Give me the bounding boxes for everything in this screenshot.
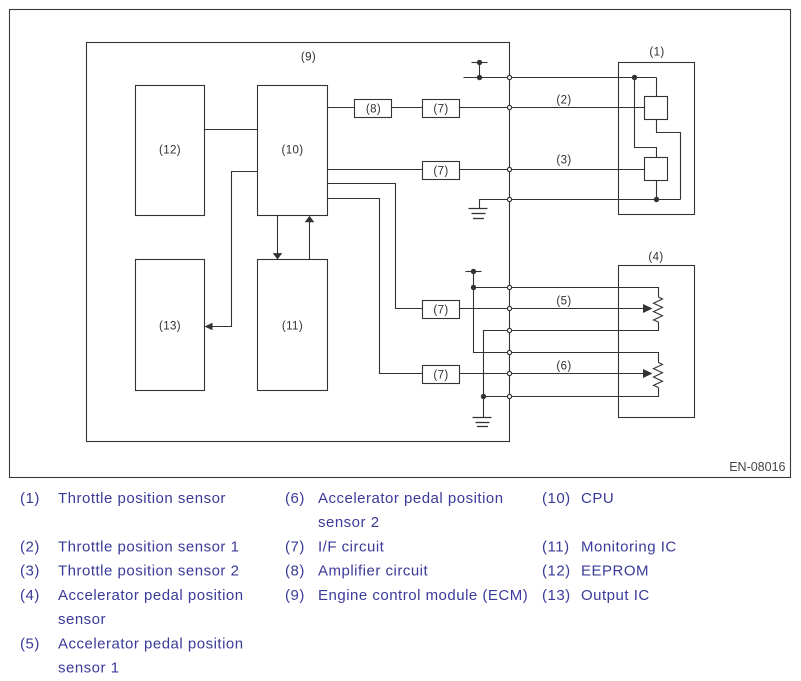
junction dot power-throttle	[477, 75, 482, 80]
svg-text:sensor: sensor	[58, 611, 106, 628]
accelerator pedal position sensor box (4)	[619, 266, 695, 418]
wire (10) to (8)	[328, 107, 355, 109]
power supply symbol (pedal)	[466, 269, 482, 288]
element 1 ground path	[657, 120, 681, 200]
svg-text:(13): (13)	[159, 321, 181, 333]
power supply symbol (throttle)	[472, 60, 488, 78]
svg-text:(12): (12)	[159, 145, 181, 157]
svg-text:Throttle position sensor 1: Throttle position sensor 1	[58, 539, 239, 556]
amplifier circuit box (8)	[355, 100, 392, 118]
arrow (10) to (11)	[273, 216, 283, 260]
svg-text:(12): (12)	[542, 563, 571, 580]
svg-text:sensor 1: sensor 1	[58, 660, 120, 677]
power drop to supply 2	[474, 288, 510, 353]
svg-text:CPU: CPU	[581, 490, 614, 507]
svg-text:(11): (11)	[542, 539, 570, 556]
potentiometer 2 ground wire	[484, 388, 659, 397]
wire supply to element 1	[656, 78, 658, 97]
wire (7)#4 to pin 6	[460, 373, 510, 375]
wire pin 5 to wiper 1 (arrow)	[510, 304, 653, 313]
wire supply to element 2	[635, 78, 657, 158]
svg-text:(10): (10)	[281, 145, 303, 157]
wire (7)#2 to pin 3	[460, 169, 510, 171]
svg-text:(7): (7)	[285, 539, 305, 556]
svg-text:Output IC: Output IC	[581, 587, 650, 604]
connector pins (open circles)	[507, 75, 511, 398]
wire pin to sensor ground	[510, 199, 681, 201]
svg-text:(10): (10)	[542, 490, 571, 507]
potentiometer 2 zigzag	[654, 363, 663, 388]
svg-text:(9): (9)	[285, 587, 305, 604]
Output IC box (13)	[136, 260, 205, 391]
svg-text:(8): (8)	[285, 563, 305, 580]
svg-text:(13): (13)	[542, 587, 571, 604]
wire (12) to (10)	[205, 129, 258, 131]
svg-text:(3): (3)	[20, 563, 40, 580]
sensor element 2	[645, 158, 668, 181]
svg-text:(5): (5)	[556, 296, 571, 308]
svg-text:Accelerator pedal position: Accelerator pedal position	[318, 490, 504, 507]
svg-text:Accelerator pedal position: Accelerator pedal position	[58, 636, 244, 653]
svg-text:(6): (6)	[285, 490, 305, 507]
svg-text:Monitoring IC: Monitoring IC	[581, 539, 677, 556]
svg-text:Throttle position sensor 2: Throttle position sensor 2	[58, 563, 239, 580]
svg-text:(5): (5)	[20, 636, 40, 653]
I/F circuit box (7) #1	[423, 100, 460, 118]
wire (10) to (7)#3	[328, 184, 423, 309]
wire (10) to (7)#4	[328, 199, 423, 374]
arrow (11) to (10)	[305, 216, 315, 260]
wire (7)#1 to pin 2	[460, 107, 510, 109]
CPU box (10)	[258, 86, 328, 216]
svg-text:Engine control module (ECM): Engine control module (ECM)	[318, 587, 528, 604]
svg-text:(7): (7)	[433, 104, 448, 116]
wire (10) to (13) with arrow	[205, 172, 258, 331]
wire (8) to (7) #1	[392, 107, 423, 109]
wire pin to sensor (1) supply	[510, 77, 657, 79]
ground symbol (pedal)	[473, 418, 492, 427]
svg-text:(7): (7)	[433, 305, 448, 317]
wire pin to potentiometer 1 top	[510, 288, 659, 298]
svg-text:(3): (3)	[556, 155, 571, 167]
svg-text:(7): (7)	[433, 166, 448, 178]
svg-text:(1): (1)	[20, 490, 40, 507]
svg-text:Throttle position sensor: Throttle position sensor	[58, 490, 226, 507]
throttle sensor ground stub	[480, 200, 510, 209]
potentiometer 1 zigzag	[654, 297, 663, 322]
wire pin 2 to sensor element 1	[510, 107, 645, 109]
wire (7)#3 to pin 5	[460, 308, 510, 310]
svg-text:(1): (1)	[649, 47, 664, 59]
svg-text:I/F circuit: I/F circuit	[318, 539, 385, 556]
wire pin 3 to sensor element 2	[510, 169, 645, 171]
EEPROM box (12)	[136, 86, 205, 216]
svg-text:(6): (6)	[556, 361, 571, 373]
svg-text:(11): (11)	[282, 321, 303, 333]
svg-text:(9): (9)	[301, 52, 316, 64]
ECM module box (9)	[87, 43, 510, 442]
legend column 2	[285, 490, 528, 604]
legend column 3	[542, 490, 677, 604]
svg-text:EEPROM: EEPROM	[581, 563, 649, 580]
svg-text:Accelerator pedal position: Accelerator pedal position	[58, 587, 244, 604]
legend column 1	[20, 490, 244, 677]
sensor element 1	[645, 97, 668, 120]
I/F circuit box (7) #4	[423, 366, 460, 384]
svg-text:EN-08016: EN-08016	[729, 460, 785, 474]
svg-text:(4): (4)	[20, 587, 40, 604]
svg-text:(2): (2)	[556, 95, 571, 107]
wire (10) to (7)#2	[328, 169, 423, 171]
svg-text:sensor 2: sensor 2	[318, 514, 380, 531]
wire power to pin (pedal supply 1)	[474, 287, 510, 289]
svg-text:(2): (2)	[20, 539, 40, 556]
wire pin 6 to wiper 2 (arrow)	[510, 369, 653, 378]
ground symbol (throttle)	[469, 209, 488, 219]
svg-text:(7): (7)	[433, 370, 448, 382]
svg-text:Amplifier circuit: Amplifier circuit	[318, 563, 429, 580]
wire pin to potentiometer 2 top	[510, 353, 659, 363]
element 2 ground path	[656, 181, 658, 200]
potentiometer 1 ground wire	[484, 322, 659, 418]
junction dot sensor supply	[632, 75, 637, 80]
junction dot sensor ground	[654, 197, 659, 202]
wire power to pin (throttle supply)	[464, 77, 510, 79]
junction dot pedal ground	[481, 394, 486, 399]
I/F circuit box (7) #2	[423, 162, 460, 180]
junction dot power-pedal	[471, 285, 476, 290]
svg-text:(4): (4)	[648, 252, 663, 264]
throttle position sensor box (1)	[619, 63, 695, 215]
I/F circuit box (7) #3	[423, 301, 460, 319]
svg-text:(8): (8)	[366, 104, 381, 116]
Monitoring IC box (11)	[258, 260, 328, 391]
